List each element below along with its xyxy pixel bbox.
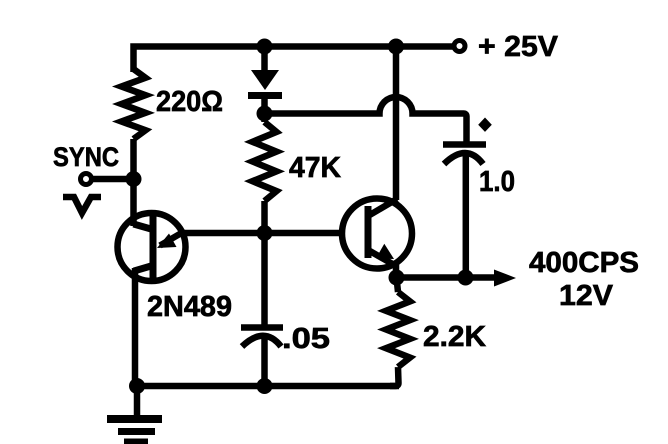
wire diode node to C2 with hop over collector wire — [265, 97, 467, 144]
output arrowhead — [494, 270, 516, 287]
terminal +25V — [454, 41, 465, 52]
capacitor C2 1.0 — [443, 145, 486, 278]
svg-text:400CPS: 400CPS — [529, 247, 639, 279]
junction node ground — [129, 378, 145, 394]
wire bottom rail — [135, 383, 399, 390]
transistor Q2 — [342, 199, 412, 269]
svg-text:2N489: 2N489 — [147, 291, 232, 323]
junction node C2 output — [458, 270, 474, 286]
resistor R2 47K — [253, 114, 277, 234]
svg-text:.05: .05 — [282, 323, 330, 355]
junction node emitter bus — [257, 225, 273, 241]
svg-text:12V: 12V — [559, 280, 614, 312]
junction node collector top — [388, 39, 404, 55]
junction node emitter output — [389, 270, 405, 286]
svg-text:SYNC: SYNC — [53, 142, 119, 172]
svg-text:47K: 47K — [289, 152, 341, 184]
junction node diode top — [257, 39, 273, 55]
wire Q2 emitter to output node — [393, 264, 400, 278]
terminal SYNC — [81, 174, 92, 185]
wire Q1 base-one to ground node — [132, 268, 139, 386]
wire output — [397, 274, 499, 281]
capacitor C1 .05 — [241, 233, 283, 386]
wire emitter bus — [184, 230, 341, 237]
polarity mark diamond — [478, 118, 492, 132]
resistor R3 2.2K — [386, 278, 410, 387]
svg-text:+ 25V: + 25V — [478, 31, 559, 63]
svg-text:1.0: 1.0 — [479, 166, 515, 198]
wire SYNC terminal to node — [92, 176, 133, 183]
wire R1 bottom to SYNC node — [130, 139, 137, 180]
wire SYNC node to Q1 base-two — [130, 179, 137, 226]
sync pulse symbol — [63, 197, 101, 213]
junction node SYNC — [126, 171, 142, 187]
resistor R1 220 ohm — [122, 69, 146, 139]
wire Q2 collector to rail — [393, 47, 400, 201]
junction node diode cathode — [257, 106, 273, 122]
transistor Q1 2N489 (UJT) — [118, 213, 186, 281]
wire top +25V rail — [134, 47, 457, 73]
svg-text:220Ω: 220Ω — [156, 86, 223, 118]
svg-text:2.2K: 2.2K — [423, 321, 486, 353]
ground — [107, 386, 162, 442]
junction node C1 bottom — [257, 378, 273, 394]
diode CR1 — [248, 47, 282, 114]
